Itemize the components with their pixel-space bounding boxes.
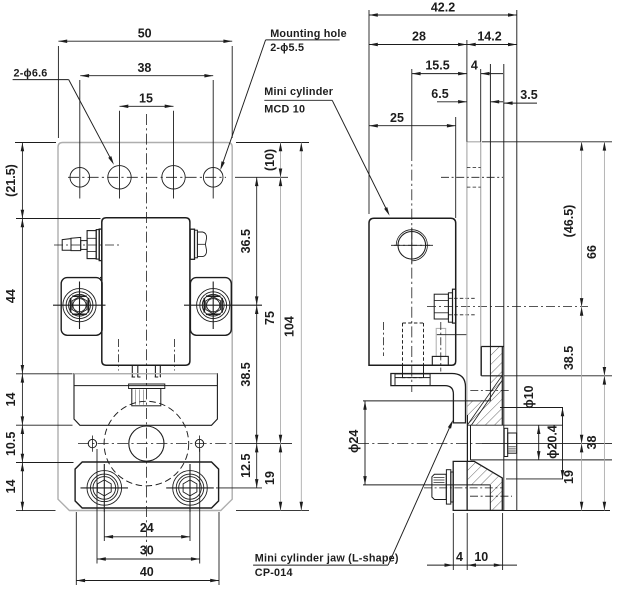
top-of-plate extension to right dims (482, 141, 612, 143)
bottom plug flange (432, 356, 448, 365)
svg-text:4: 4 (456, 550, 463, 564)
hole H2 (2-phi6.6) (108, 166, 131, 189)
dim 15.5 (412, 73, 467, 75)
dim 6.5 (437, 101, 467, 103)
hub taper diagonal 1 (467, 375, 502, 425)
side view mounting hole circle (398, 232, 426, 260)
dim phi24 (364, 401, 366, 485)
left port centerline (54, 244, 121, 246)
svg-text:36.5: 36.5 (239, 229, 253, 253)
left trunnion bolt (63, 289, 96, 322)
svg-text:42.2: 42.2 (431, 0, 455, 14)
svg-text:10.5: 10.5 (4, 432, 18, 456)
hidden screw centerline in rod (383, 322, 385, 356)
svg-text:10: 10 (474, 550, 488, 564)
hidden cushion hole centerline left (117, 339, 119, 371)
right jaw pin hole (195, 439, 203, 447)
svg-text:Mounting hole: Mounting hole (270, 28, 347, 40)
hole H3 (2-phi6.6) (162, 166, 185, 189)
svg-text:44: 44 (4, 289, 18, 303)
hex plug right port (190, 229, 194, 259)
thread arc of side hole (396, 230, 427, 261)
bottom plug centerline (440, 322, 442, 372)
svg-text:50: 50 (138, 26, 152, 40)
svg-text:12.5: 12.5 (239, 454, 253, 478)
front plate vertical centerline (145, 114, 147, 558)
right trunnion bolt (197, 289, 230, 322)
right socket screw (173, 471, 208, 506)
side port centerline extending to right dims (427, 306, 588, 308)
rod nut (395, 374, 430, 378)
mounting panel back face line (516, 10, 518, 511)
piston rod stubs below body (131, 365, 133, 377)
hole row centerline (68, 176, 226, 178)
center rod hole phi10 (129, 426, 164, 461)
hole row centerline extension to (10) dim (235, 176, 288, 178)
dim 4 and 10 bottom (427, 564, 517, 566)
svg-text:104: 104 (283, 316, 297, 337)
dim 25 right extension (455, 117, 457, 218)
dim column 36.5/38.5/12.5 (256, 177, 258, 488)
hose barb fitting left port (62, 239, 71, 251)
hub upper outline lines (481, 346, 504, 348)
svg-text:19: 19 (562, 470, 576, 484)
svg-text:Mini cylinder jaw (L-shape): Mini cylinder jaw (L-shape) (255, 553, 399, 565)
svg-text:14.2: 14.2 (477, 30, 501, 44)
phi24 clamp circle dashed (104, 401, 189, 486)
svg-text:15.5: 15.5 (425, 59, 449, 73)
bottom bolt centerline (424, 487, 503, 489)
left trunnion block (61, 278, 102, 336)
main horizontal centerline (78, 443, 232, 445)
svg-text:(10): (10) (263, 149, 277, 171)
dim 50 top (57, 46, 59, 138)
left jaw pin hole (88, 439, 96, 447)
side top extension lines (368, 10, 370, 214)
pocket slot centerline (470, 495, 512, 497)
front view outer mounting plate (50x104) (58, 143, 232, 511)
dim 38 (80, 75, 213, 77)
side port neck (448, 293, 452, 322)
side view hole/rod centerline (411, 69, 413, 150)
bottom dim extension lines (103, 512, 105, 541)
screw row extension to 12.5 dim (216, 487, 262, 489)
hidden mounting hole through plate (467, 167, 481, 169)
dim phi10 (538, 425, 540, 460)
svg-text:3.5: 3.5 (520, 88, 537, 102)
bottom 4/10 extension lines (452, 513, 454, 570)
side view cylinder body (369, 218, 456, 365)
side rod stub (402, 365, 404, 377)
bottom block lip line (466, 461, 468, 510)
centerline extension to right dims (482, 443, 612, 445)
dim 4 plate thickness (481, 73, 503, 75)
66/38 junction extension (504, 375, 612, 377)
main centerline extension to dims (235, 443, 292, 445)
dim 24 (104, 536, 190, 538)
hub upper hatched section (490, 347, 502, 376)
mounting hole right (2-phi5.5) H4 (203, 168, 223, 188)
svg-text:66: 66 (585, 245, 599, 259)
bottom bolt washer (446, 470, 450, 504)
right trunnion block (190, 278, 231, 336)
pocket top edge / phi24 bottom extension (363, 484, 490, 486)
svg-text:(21.5): (21.5) (4, 164, 18, 197)
mounting hole left (2-phi5.5) H1 (70, 168, 90, 188)
svg-text:ϕ24: ϕ24 (347, 430, 361, 453)
jaw plate inner step line (74, 385, 217, 387)
dim column (46.5)/38.5/19 (581, 142, 583, 511)
boss top edge line (437, 334, 467, 336)
dim 25 (369, 125, 456, 127)
jaw upper plate front view (74, 374, 217, 426)
left dimension chain extension lines (15, 142, 56, 144)
bottom block hatched section (468, 461, 503, 510)
bottom edge extension line (453, 510, 610, 512)
svg-text:14: 14 (4, 480, 18, 494)
svg-text:19: 19 (263, 471, 277, 485)
boss face line (489, 64, 491, 401)
svg-text:2-ϕ6.6: 2-ϕ6.6 (14, 68, 48, 80)
dim 42.2 (369, 14, 517, 16)
dim column (10)/75/19 (280, 143, 282, 511)
pocket side line (489, 485, 491, 511)
svg-text:38.5: 38.5 (239, 362, 253, 386)
jaw mounting plate side view (4mm strip) (467, 141, 481, 143)
dim phi20.4 (562, 408, 564, 479)
svg-text:2-ϕ5.5: 2-ϕ5.5 (270, 42, 304, 54)
hub taper diagonal 2 (471, 380, 502, 425)
svg-text:15: 15 (139, 91, 153, 105)
dim 14.2 (467, 44, 517, 46)
svg-text:MCD 10: MCD 10 (264, 104, 305, 116)
svg-text:4: 4 (471, 59, 478, 73)
L-shape jaw bracket side view (391, 374, 466, 423)
svg-text:38.5: 38.5 (562, 346, 576, 370)
dim 104 (300, 143, 302, 511)
svg-text:(46.5): (46.5) (562, 205, 576, 238)
phi24 top extension / boss bottom line (363, 400, 490, 402)
hidden rod bore side view (402, 323, 404, 365)
bottom plug fitting gray body (436, 328, 446, 356)
dim 28 (369, 44, 467, 46)
svg-text:25: 25 (390, 111, 404, 125)
svg-text:CP-014: CP-014 (255, 567, 293, 579)
bottom block front view (75, 462, 219, 508)
svg-text:ϕ10: ϕ10 (522, 385, 536, 408)
hub bottom / phi10 top extension line (467, 424, 563, 426)
rod coupling body with thread (132, 389, 161, 406)
rod end face side view (467, 415, 469, 461)
svg-text:38: 38 (137, 61, 151, 75)
side port flange (453, 289, 456, 323)
cylinder body front view (102, 218, 190, 365)
dim 3.5 (504, 102, 537, 104)
bottom block side view (453, 461, 502, 510)
svg-text:30: 30 (140, 543, 154, 557)
side port fitting hex (434, 294, 448, 319)
jaw plate top edge gray (74, 373, 217, 375)
mounting panel front face line (503, 64, 505, 511)
phi20.4 extension lines (500, 407, 563, 409)
side port hidden hole lines (448, 297, 476, 299)
dim 15 (120, 105, 174, 107)
dim 30 (97, 558, 200, 560)
dim column 66/38 (603, 142, 605, 511)
left socket screw (87, 471, 122, 506)
clamp bolt head side view (508, 433, 517, 453)
dim 40 (76, 580, 219, 582)
side hole crosshair solid segments (394, 244, 430, 246)
svg-text:Mini cylinder: Mini cylinder (264, 86, 333, 98)
left trunnion block top edge extension (100, 277, 102, 279)
svg-text:75: 75 (263, 311, 277, 325)
hidden upper screw centerline (470, 390, 511, 392)
svg-text:14: 14 (4, 393, 18, 407)
left dimension chain (21.5)/44/14/10.5/14 (21, 143, 23, 511)
rod coupling flange (129, 384, 165, 389)
svg-text:6.5: 6.5 (431, 87, 448, 101)
svg-text:24: 24 (140, 521, 154, 535)
svg-text:ϕ20.4: ϕ20.4 (545, 425, 559, 459)
hidden cushion hole centerline right (173, 339, 175, 371)
svg-text:28: 28 (412, 30, 426, 44)
right extension lines from front view (236, 142, 309, 144)
clamp bolt washer side view (504, 428, 508, 456)
svg-text:40: 40 (140, 565, 154, 579)
svg-text:38: 38 (585, 436, 599, 450)
bottom clamp bolt head side view (432, 474, 446, 499)
phi10 bottom extension line (471, 459, 613, 461)
main centerline side view (358, 443, 482, 445)
